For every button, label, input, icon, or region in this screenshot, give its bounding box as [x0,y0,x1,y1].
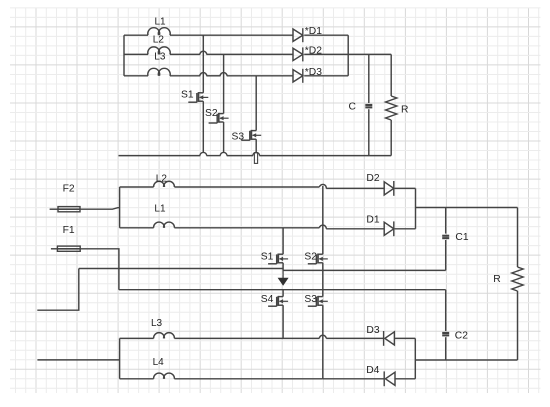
wire top output bus (D2 cathode rail) [304,53,391,55]
junction hop at S1 source on bottom bus [200,152,207,155]
wire S3 source [255,139,257,153]
wire D4 anode to join vertical [395,378,415,380]
wire S2 drain (bottom circuit) [322,186,324,254]
junction hop at S2 source on bottom bus [220,152,227,155]
wire capacitor C branch [368,54,370,155]
transistor S4 [261,294,288,306]
svg-text:L1: L1 [154,204,166,215]
wire branch 3 (L3 to D3) [124,75,293,77]
inductor L4 (bottom) [153,357,175,379]
wire F2 to input bus [80,208,120,210]
wire bottom-circuit left bus (L1/L2) [119,187,121,228]
transistor S1 [181,89,208,102]
svg-text:D4: D4 [366,365,379,376]
node S1 drain junction on branch 1 [202,35,204,37]
svg-text:L4: L4 [153,357,165,368]
svg-text:D3: D3 [366,325,379,336]
svg-text:D1: D1 [366,214,379,225]
wire S4 source to L3 wire [282,305,284,338]
wire C2 branch [445,290,447,360]
wire line 1 left leg [37,269,79,311]
wire R top lead [390,54,392,96]
wire branch 1 (L1 to D1) [124,34,293,36]
resistor R (top circuit) [386,96,409,120]
wire line 1 (right segment) [283,269,446,271]
svg-text:L3: L3 [154,52,166,63]
wire C1 branch [445,208,447,271]
svg-text:S2: S2 [205,108,218,119]
inductor L1 (bottom) [154,204,175,228]
svg-text:C2: C2 [455,330,468,341]
inductor L3 [148,52,170,76]
wire D3-D4 anode join [414,338,416,378]
svg-text:S2: S2 [304,252,317,263]
wire S2 drain [223,54,225,113]
capacitor C2 [442,330,468,341]
wire S4 drain [282,290,284,297]
svg-text:C1: C1 [455,232,468,243]
svg-text:S4: S4 [261,294,274,305]
diode D1 [293,26,322,42]
wire S2 source [223,122,225,153]
diode D4 (bottom circuit) [366,365,395,386]
wire D2 cathode to join vertical [395,187,416,189]
fuse F2 [50,184,80,212]
wire L4 branch (to D4) [120,378,385,380]
wire load R bottom lead [517,291,519,360]
wire input line to L3/L4 bus [37,359,119,361]
diode D3 (bottom circuit) [366,325,394,346]
wire S3 drain [255,76,257,131]
capacitor C1 [442,232,469,243]
wire S3 source to L4 wire [322,305,324,379]
svg-text:R: R [493,274,500,285]
svg-text:F2: F2 [63,184,75,195]
junction hop S2-drain joins L2 wire [319,184,326,188]
wire positive output rail [416,207,518,209]
transistor S3 [232,130,262,143]
wire S1 drain (bottom circuit) [282,228,284,254]
junction hop at S3 source on bottom bus [253,152,260,155]
inductor L1 [148,16,170,35]
diode D2 (bottom circuit) [366,173,393,196]
junction hop S1-drain over branch 3 [200,73,207,76]
wire D1-D2 cathode join [415,188,417,228]
svg-text:F1: F1 [63,225,75,236]
svg-text:L2: L2 [153,35,165,46]
wire S1 drain [202,35,204,93]
transistor S3 (bottom circuit) [304,294,327,306]
capacitor C [349,102,373,113]
wire S2 source to S3 drain [322,263,324,297]
svg-text:D2: D2 [366,173,379,184]
transistor S1 (bottom circuit) [261,252,288,264]
inductor L2 [148,35,170,55]
junction hop S3-source over L3 wire [319,335,326,338]
wire L3 branch (to D3) [120,337,384,339]
wire D3 anode to join vertical [394,337,415,339]
svg-text:C: C [349,102,357,113]
svg-text:S3: S3 [304,294,317,305]
wire R bottom lead [390,120,392,156]
fuse F1 [51,225,80,252]
wire branch 2 (L2 to D2) [124,53,293,55]
diode D3 [293,67,322,83]
transistor S2 (bottom circuit) [304,252,327,264]
junction hop S2-drain over branch 3 [220,73,227,76]
svg-text:S1: S1 [181,89,194,100]
svg-text:R: R [401,104,408,115]
wire negative output rail [415,359,517,361]
inductor L3 (bottom) [151,318,174,339]
wire S3 source stub below bus [254,153,257,164]
arrow from line 1 [278,270,289,285]
svg-text:L3: L3 [151,318,163,329]
wire top-circuit bottom bus [119,155,392,157]
transistor S2 [205,108,229,123]
wire F1 to line 2 [80,249,119,290]
wire D3 cathode to output bus [304,75,348,77]
svg-text:S3: S3 [232,131,245,142]
wire D1-D3 join vertical [347,35,349,76]
wire bottom-circuit left bus (L3/L4) [119,338,121,378]
wire L1 branch (to D1) [120,228,385,229]
resistor R (load) [493,267,523,291]
wire S1 source to line 1 [282,263,284,271]
wire top-circuit left bus [123,35,125,76]
diode D2 [293,45,322,61]
wire line 1 (left segment) [79,268,283,270]
wire D1 cathode to output bus [304,34,348,36]
svg-text:S1: S1 [261,252,274,263]
svg-text:L2: L2 [156,173,168,184]
wire load R top lead [517,208,519,268]
wire S1 source [202,101,204,153]
junction hop S2-drain over L1 wire [319,225,326,229]
diode D1 (bottom circuit) [366,214,393,236]
inductor L2 (bottom) [154,173,175,187]
wire L2 branch (to D2) [120,187,385,188]
wire D1 cathode to join vertical [395,228,416,230]
junction hop S1-drain over branch 2 [200,51,207,54]
svg-text:L1: L1 [155,16,167,27]
wire line 2 [119,289,446,291]
